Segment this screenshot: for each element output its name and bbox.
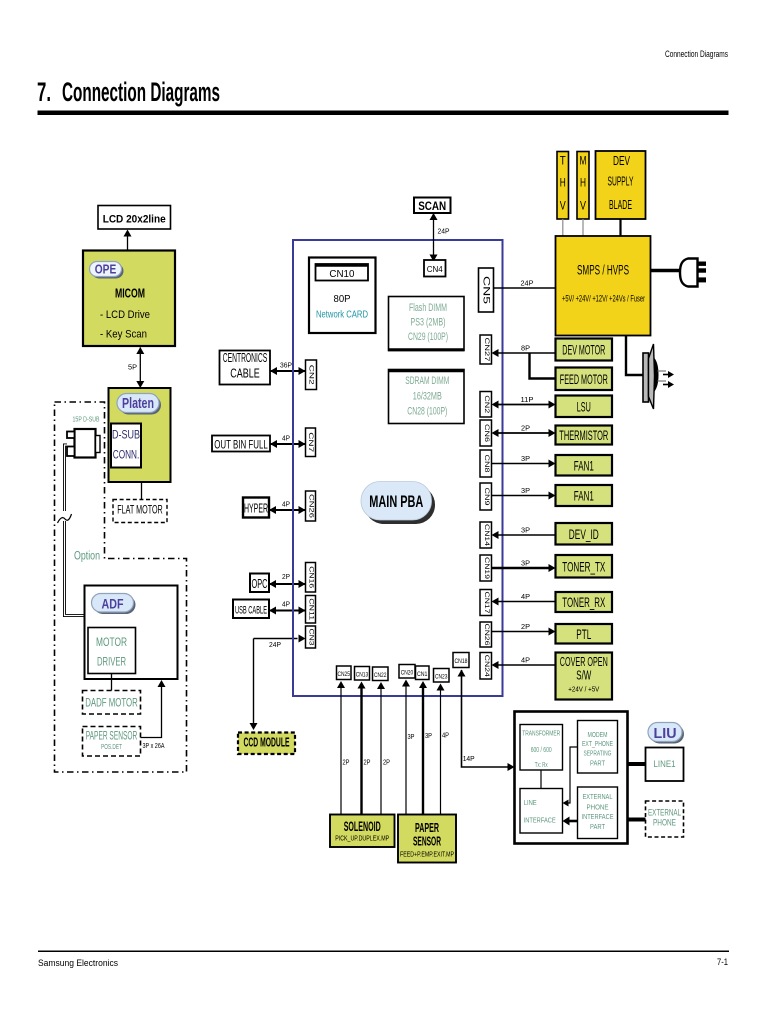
svg-text:V: V — [580, 199, 586, 213]
svg-text:EXT_PHONE: EXT_PHONE — [582, 739, 613, 748]
svg-text:CN27: CN27 — [483, 338, 489, 363]
wire OPE to LCD with up arrow — [127, 235, 129, 251]
svg-text:24P: 24P — [269, 642, 281, 649]
svg-text:PHONE: PHONE — [587, 803, 609, 812]
svg-text:CN28 (100P): CN28 (100P) — [407, 406, 447, 418]
connector CN4 — [424, 260, 446, 277]
OPC box — [250, 574, 269, 593]
connector CN9 — [480, 483, 492, 510]
title underline — [38, 111, 729, 116]
svg-text:EXTERNAL: EXTERNAL — [583, 792, 613, 801]
CENTRONICS CABLE box — [220, 351, 271, 385]
footer rule — [38, 951, 729, 953]
SDRAM DIMM box — [389, 370, 465, 424]
svg-text:4P: 4P — [282, 499, 290, 508]
svg-text:3P: 3P — [521, 559, 530, 568]
svg-text:TONER_RX: TONER_RX — [562, 594, 605, 610]
svg-text:SEPRATING: SEPRATING — [584, 749, 612, 758]
2P double arrow to THERMISTOR — [499, 432, 549, 434]
TRANSFORMER box — [520, 725, 563, 771]
OPE pill label — [92, 264, 124, 279]
svg-text:PHONE: PHONE — [653, 818, 676, 829]
MODEM EXT_PHONE SEPRATING PART box — [578, 721, 618, 774]
svg-text:MAIN PBA: MAIN PBA — [369, 492, 423, 511]
svg-text:Network CARD: Network CARD — [316, 310, 368, 321]
connector CN24 — [480, 653, 492, 680]
svg-text:LINE: LINE — [524, 798, 537, 807]
svg-text:CN4: CN4 — [427, 264, 443, 274]
svg-text:2P: 2P — [343, 760, 350, 767]
svg-text:V: V — [560, 199, 566, 213]
svg-text:3P: 3P — [521, 454, 530, 463]
svg-text:3P x 26A: 3P x 26A — [143, 743, 165, 750]
FAN1 box lower — [556, 485, 613, 506]
LCD 20x2line box — [98, 206, 171, 230]
2P double arrow to CN16 — [269, 583, 306, 585]
OUT BIN FULL box — [212, 436, 270, 452]
5P double arrow OPE-Platen — [139, 348, 141, 388]
Option dash-dot container — [55, 402, 187, 772]
svg-text:600 / 600: 600 / 600 — [531, 747, 552, 754]
svg-text:ADF: ADF — [102, 596, 124, 612]
svg-text:4P: 4P — [521, 592, 530, 601]
MAIN PBA outline — [293, 240, 503, 696]
svg-text:MOTOR: MOTOR — [96, 635, 127, 649]
svg-text:CN8: CN8 — [483, 455, 489, 474]
svg-text:Samsung Electronics: Samsung Electronics — [38, 958, 118, 968]
USB CABLE box — [233, 600, 269, 619]
FAN1 box upper — [556, 455, 613, 476]
4P double arrow to CN26 — [269, 509, 306, 511]
wire EXTERNAL PHONE part to LINE INTERFACE — [568, 820, 578, 823]
svg-text:4P: 4P — [521, 656, 530, 665]
fuser lamp icon — [643, 353, 649, 402]
svg-text:24P: 24P — [521, 279, 534, 288]
wire PAPER SENSOR to ADF with up arrow — [141, 686, 162, 738]
OPE block — [83, 251, 175, 347]
svg-text:7.: 7. — [37, 77, 51, 107]
4P wire from TONER_RX — [499, 601, 556, 603]
svg-text:FLAT MOTOR: FLAT MOTOR — [117, 503, 163, 517]
svg-text:DEV_ID: DEV_ID — [569, 526, 599, 542]
svg-text:CENTRONICS: CENTRONICS — [223, 351, 268, 365]
24P wire CN5 to SMPS — [494, 287, 556, 289]
svg-text:5P: 5P — [128, 363, 137, 372]
svg-text:DEV: DEV — [613, 154, 630, 168]
svg-text:CN26: CN26 — [483, 624, 489, 647]
ADF pill label — [94, 596, 136, 615]
24P double arrow SCAN-CN4 — [433, 214, 435, 262]
LIU outer box — [515, 712, 628, 844]
svg-text:POS.DET: POS.DET — [101, 744, 122, 751]
svg-text:CN10: CN10 — [329, 269, 354, 280]
connector CN16 — [306, 563, 316, 593]
svg-text:CN3: CN3 — [308, 629, 314, 647]
connector CN27 — [480, 335, 492, 364]
D-SUB connector icon — [75, 429, 96, 458]
svg-text:Connection Diagrams: Connection Diagrams — [62, 77, 220, 107]
svg-text:CN7: CN7 — [307, 432, 314, 453]
svg-text:INTERFACE: INTERFACE — [582, 812, 614, 821]
svg-text:80P: 80P — [334, 294, 351, 305]
svg-text:M: M — [580, 154, 587, 168]
svg-text:CN20: CN20 — [401, 670, 414, 677]
svg-text:CN19: CN19 — [483, 557, 489, 580]
svg-text:CN13: CN13 — [356, 672, 369, 679]
thick wire LIU to EXTERNAL PHONE — [628, 818, 646, 822]
CN10 network card box — [309, 258, 376, 334]
svg-text:FAN1: FAN1 — [574, 488, 594, 504]
2P wire to PTL — [492, 631, 549, 633]
SMPS / HVPS box — [556, 236, 651, 336]
svg-text:16/32MB: 16/32MB — [413, 391, 442, 403]
svg-text:SMPS / HVPS: SMPS / HVPS — [577, 262, 629, 277]
svg-text:PAPER SENSOR: PAPER SENSOR — [86, 729, 138, 743]
svg-text:4P: 4P — [282, 600, 290, 609]
svg-text:CN26: CN26 — [308, 494, 314, 519]
LINE1 box — [646, 748, 684, 782]
wire SMPS to fuser lamp — [626, 336, 643, 376]
power plug icon — [680, 259, 698, 287]
THV box — [557, 152, 569, 220]
wire TRANSFORMER to LINE INTERFACE — [540, 770, 542, 789]
connector CN6 — [480, 420, 492, 446]
3P thick wire PAPER SENSOR to CN1 — [422, 688, 424, 815]
svg-text:H: H — [560, 176, 566, 190]
svg-text:USB CABLE: USB CABLE — [235, 605, 267, 617]
svg-text:14P: 14P — [463, 756, 475, 763]
connector CN17 — [480, 590, 492, 616]
svg-text:24P: 24P — [438, 229, 450, 236]
wire THV to SMPS — [562, 219, 564, 236]
svg-text:MICOM: MICOM — [115, 287, 145, 301]
connector CN2 left — [306, 360, 317, 390]
LIU pill label — [650, 725, 684, 744]
svg-text:CN23: CN23 — [435, 674, 448, 681]
svg-text:36P: 36P — [280, 360, 292, 369]
MOTOR DRIVER box — [88, 628, 136, 674]
THERMISTOR box — [556, 426, 613, 445]
svg-text:DRIVER: DRIVER — [97, 655, 126, 669]
DEV_ID box — [556, 523, 613, 545]
MAIN PBA pill label — [365, 486, 436, 525]
svg-text:BLADE: BLADE — [609, 198, 632, 212]
svg-text:CN5: CN5 — [481, 276, 492, 304]
wire Platen to FLAT MOTOR — [141, 482, 143, 500]
wire MHV to SMPS — [582, 219, 584, 236]
connector CN8 — [480, 450, 492, 477]
connector CN11 — [306, 596, 316, 624]
CCD MODULE box — [238, 733, 295, 755]
svg-text:CN2: CN2 — [483, 395, 489, 414]
svg-text:S/W: S/W — [576, 669, 591, 683]
DEV SUPPLY BLADE box — [596, 151, 646, 219]
ADF block — [85, 586, 178, 680]
svg-text:THERMISTOR: THERMISTOR — [559, 427, 608, 443]
svg-text:COVER OPEN: COVER OPEN — [560, 655, 608, 669]
svg-text:DEV MOTOR: DEV MOTOR — [562, 342, 605, 358]
svg-text:PICK_UP.DUPLEX.MP: PICK_UP.DUPLEX.MP — [335, 836, 389, 843]
svg-text:2P: 2P — [282, 572, 290, 581]
svg-text:T: T — [560, 154, 567, 168]
svg-text:OPC: OPC — [252, 577, 268, 591]
LSU box — [556, 396, 613, 418]
svg-text:CN29 (100P): CN29 (100P) — [408, 331, 448, 343]
svg-text:HYPER: HYPER — [244, 502, 268, 516]
svg-text:CN1: CN1 — [417, 671, 428, 678]
SOLENOID box — [330, 815, 395, 848]
svg-text:D-SUB: D-SUB — [112, 428, 140, 442]
HYPER box — [243, 498, 269, 518]
connector CN5 — [479, 268, 494, 312]
svg-text:PART: PART — [590, 822, 605, 831]
Flash DIMM box — [389, 297, 465, 351]
FEED MOTOR box — [556, 368, 613, 391]
svg-text:LIU: LIU — [654, 726, 677, 742]
wire MOTOR DRIVER to DADF MOTOR — [111, 674, 113, 691]
svg-text:FEED MOTOR: FEED MOTOR — [560, 371, 608, 387]
connector CN22 — [373, 667, 389, 681]
36P double arrow to CN2 — [270, 370, 306, 372]
connector CN19 — [480, 555, 492, 581]
thick wire LIU to LINE1 — [628, 762, 646, 766]
svg-text:TONER_TX: TONER_TX — [562, 558, 605, 574]
14P wire CN18 to LIU — [462, 670, 509, 767]
wire DEV SUPPLY BLADE to SMPS — [619, 219, 621, 236]
wire MODEM to LINE INTERFACE — [567, 747, 578, 803]
svg-text:2P: 2P — [364, 760, 371, 767]
fuser arrows — [658, 370, 667, 372]
svg-text:CN25: CN25 — [337, 671, 350, 678]
connector CN25 — [337, 666, 352, 680]
EXTERNAL PHONE INTERFACE PART box — [578, 787, 618, 839]
connector CN14 — [480, 522, 492, 548]
PAPER SENSOR box — [398, 815, 456, 863]
svg-text:CN14: CN14 — [483, 524, 489, 547]
svg-text:2P: 2P — [383, 760, 390, 767]
SCAN box — [414, 198, 451, 214]
svg-text:DADF MOTOR: DADF MOTOR — [85, 696, 138, 710]
4P wire PAPER SENSOR to CN23 — [440, 691, 442, 815]
connector CN3 — [306, 626, 316, 648]
11P double arrow to LSU — [499, 404, 549, 406]
svg-text:2P: 2P — [521, 622, 530, 631]
svg-text:SENSOR: SENSOR — [413, 835, 441, 849]
cable break squiggle — [58, 514, 72, 523]
svg-text:8P: 8P — [521, 344, 530, 353]
4P double arrow to CN7 — [270, 443, 306, 445]
svg-text:CN22: CN22 — [374, 672, 387, 679]
connector CN7 — [306, 428, 316, 457]
svg-text:Option: Option — [74, 551, 100, 563]
FLAT MOTOR dashed box — [113, 500, 167, 523]
svg-text:LCD 20x2line: LCD 20x2line — [103, 214, 166, 226]
svg-text:CN18: CN18 — [455, 658, 468, 665]
svg-text:CN9: CN9 — [483, 488, 489, 507]
4P double arrow to CN11 — [269, 610, 306, 612]
svg-text:CN17: CN17 — [483, 592, 489, 615]
COVER OPEN switch box — [556, 653, 613, 700]
3P wire to FAN1 lower — [492, 495, 549, 497]
connector CN1 — [416, 666, 430, 680]
svg-text:15P D-SUB: 15P D-SUB — [73, 417, 100, 424]
svg-text:CN16: CN16 — [308, 566, 314, 589]
svg-text:SUPPLY: SUPPLY — [608, 175, 634, 189]
svg-text:- LCD Drive: - LCD Drive — [100, 309, 150, 321]
svg-text:CCD MODULE: CCD MODULE — [244, 735, 290, 750]
svg-text:FAN1: FAN1 — [574, 457, 594, 473]
svg-text:PAPER: PAPER — [415, 821, 439, 835]
EXTERNAL PHONE dashed box — [646, 801, 684, 837]
svg-text:CN2: CN2 — [308, 365, 315, 386]
svg-text:CABLE: CABLE — [230, 367, 260, 381]
svg-text:INTERFACE: INTERFACE — [524, 816, 556, 825]
svg-text:H: H — [580, 176, 586, 190]
svg-text:4P: 4P — [282, 433, 290, 442]
svg-text:CN11: CN11 — [308, 598, 314, 621]
Platen pill label — [119, 396, 161, 415]
3P wire PAPER SENSOR to CN20 — [405, 687, 407, 815]
wire SMPS to power plug — [651, 269, 682, 273]
svg-text:11P: 11P — [521, 395, 534, 404]
svg-text:+24V / +5V: +24V / +5V — [568, 685, 599, 694]
connector CN23 — [434, 669, 450, 683]
connector CN20 — [399, 665, 415, 679]
svg-text:CN24: CN24 — [483, 655, 489, 678]
svg-text:OPE: OPE — [95, 263, 117, 277]
svg-text:3P: 3P — [521, 526, 530, 535]
svg-text:3P: 3P — [408, 734, 415, 741]
TONER_TX box — [556, 555, 613, 578]
MHV box — [577, 152, 589, 220]
svg-text:Flash DIMM: Flash DIMM — [409, 302, 447, 314]
2P thick wire SOLENOID to CN13 — [360, 689, 362, 815]
svg-text:CONN.: CONN. — [113, 448, 140, 462]
svg-text:OUT BIN FULL: OUT BIN FULL — [214, 440, 268, 452]
svg-text:3P: 3P — [425, 733, 432, 740]
DADF MOTOR dashed box — [83, 691, 141, 715]
4P wire from COVER OPEN switch — [499, 664, 556, 666]
2P wire SOLENOID to CN25 — [340, 688, 342, 815]
3P wire to FAN1 upper — [492, 463, 549, 465]
svg-text:PTL: PTL — [576, 626, 591, 642]
svg-text:SOLENOID: SOLENOID — [344, 819, 381, 834]
svg-text:Connection Diagrams: Connection Diagrams — [665, 49, 728, 59]
24P wire to CN3 and CCD MODULE — [254, 638, 298, 640]
svg-text:FEED+P.EMP.EXIT.MP: FEED+P.EMP.EXIT.MP — [400, 852, 454, 859]
PTL box — [556, 624, 613, 644]
svg-text:MODEM: MODEM — [588, 730, 608, 739]
svg-text:LINE1: LINE1 — [654, 759, 676, 769]
connector CN26 left — [306, 491, 316, 521]
svg-text:- Key Scan: - Key Scan — [100, 329, 147, 341]
svg-text:PS3 (2MB): PS3 (2MB) — [411, 317, 446, 329]
svg-text:LSU: LSU — [577, 398, 591, 414]
DEV MOTOR box — [556, 339, 613, 361]
connector CN13 — [355, 667, 370, 681]
3P wire from DEV_ID — [499, 534, 556, 536]
svg-text:4P: 4P — [442, 733, 449, 740]
connector CN18 — [453, 653, 469, 668]
svg-text:Tx: Rx: Tx: Rx — [535, 762, 548, 769]
TONER_RX box — [556, 592, 613, 612]
Platen block — [109, 388, 171, 482]
D-SUB CONN box — [111, 424, 141, 468]
svg-text:SCAN: SCAN — [418, 201, 446, 213]
svg-text:+5V/ +24V/ +12V/ +24Vs / Fuser: +5V/ +24V/ +12V/ +24Vs / Fuser — [562, 294, 645, 305]
connector CN26 right — [480, 622, 492, 647]
3P thick wire to TONER_TX — [492, 567, 549, 570]
cable from D-SUB to ADF — [65, 445, 85, 616]
svg-text:TRANSFORMER: TRANSFORMER — [522, 729, 560, 738]
svg-text:2P: 2P — [521, 424, 530, 433]
svg-text:Platen: Platen — [122, 396, 154, 412]
LINE INTERFACE box — [520, 789, 563, 834]
svg-text:PART: PART — [590, 759, 605, 768]
2P wire SOLENOID to CN22 — [380, 689, 382, 815]
PAPER SENSOR dashed box — [83, 727, 141, 757]
svg-text:3P: 3P — [521, 486, 530, 495]
svg-text:SDRAM DIMM: SDRAM DIMM — [405, 375, 449, 387]
svg-text:7-1: 7-1 — [717, 957, 728, 967]
8P wire to DEV MOTOR and FEED MOTOR — [499, 352, 556, 354]
svg-text:CN6: CN6 — [483, 424, 489, 443]
connector CN2 right — [480, 392, 492, 418]
